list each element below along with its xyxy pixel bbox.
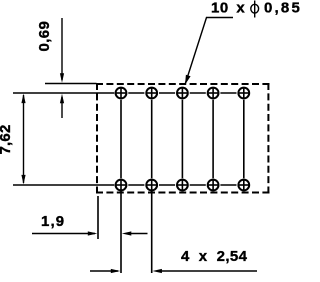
bottom row centerline segment holes 8-9 xyxy=(190,184,206,186)
column 1 centerline xyxy=(120,100,122,179)
dim 4 x 2,54 left arrow (pointing right at column 1 line) xyxy=(90,269,120,273)
hole 7 xyxy=(146,180,157,191)
bottom row centerline segment holes 6-7 xyxy=(128,184,144,186)
column 2 centerline xyxy=(151,100,153,179)
hole 2 xyxy=(146,88,157,99)
dim 7,62 dimension line with arrows xyxy=(21,94,25,185)
hole 5 xyxy=(238,88,249,99)
dim 0,69 lower arrow (pointing up at hole row centerline) xyxy=(60,94,64,118)
svg-text:1,9: 1,9 xyxy=(41,213,65,230)
hole 9 xyxy=(208,180,219,191)
bottom row centerline (left extension to hole 6) xyxy=(13,184,114,186)
top row centerline (left extension to hole 1) xyxy=(13,92,114,94)
bottom row centerline segment holes 7-8 xyxy=(159,184,175,186)
hole 10 xyxy=(238,180,249,191)
column 2 extension line below package xyxy=(151,191,153,273)
top row centerline segment holes 4-5 xyxy=(220,92,236,94)
svg-text:10 x: 10 x xyxy=(211,0,245,17)
package top edge extension line (left of package) xyxy=(45,83,97,85)
dim 1,9 right arrow (pointing left at column 1 line) xyxy=(122,231,148,235)
leader line for hole size callout xyxy=(185,18,233,85)
hole 1 xyxy=(116,88,127,99)
dim 4 x 2,54 right arrow (pointing left at column 2 line) xyxy=(152,269,257,273)
column 3 centerline xyxy=(181,100,183,179)
svg-text:0,69: 0,69 xyxy=(36,21,53,52)
top row centerline segment holes 2-3 xyxy=(159,92,175,94)
bottom row centerline segment holes 9-10 xyxy=(220,184,236,186)
top row centerline segment holes 1-2 xyxy=(128,92,144,94)
dim 0,69 upper arrow (pointing down at top edge) xyxy=(60,18,64,83)
package outline (dashed rectangle) xyxy=(96,83,269,194)
svg-text:4 x 2,54: 4 x 2,54 xyxy=(181,248,248,265)
hole 6 xyxy=(116,180,127,191)
column 4 centerline xyxy=(212,100,214,179)
column 1 extension line below package xyxy=(120,191,122,273)
dim 1,9 left arrow (pointing right at package edge line) xyxy=(32,231,97,235)
hole 3 xyxy=(177,88,188,99)
svg-text:7,62: 7,62 xyxy=(0,125,14,155)
top row centerline segment holes 3-4 xyxy=(190,92,206,94)
svg-text:0,85: 0,85 xyxy=(264,0,300,17)
package left edge extension line below package xyxy=(97,196,99,239)
hole 8 xyxy=(177,180,188,191)
hole 4 xyxy=(208,88,219,99)
column 5 centerline xyxy=(243,100,245,179)
diameter symbol xyxy=(251,1,259,18)
